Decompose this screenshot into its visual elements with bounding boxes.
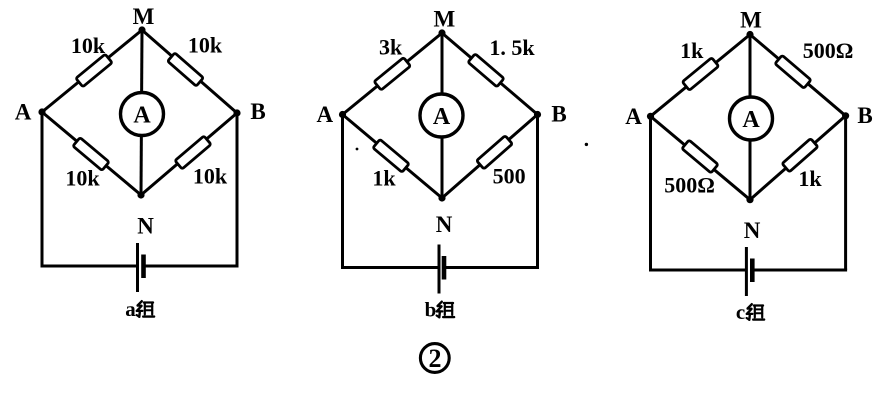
wire M2-B2 (arm): [442, 33, 538, 115]
caption c组 (group c): [736, 300, 764, 324]
svg-text:1k: 1k: [680, 38, 704, 63]
wire A1-N1 (arm): [42, 112, 141, 195]
wire A2-M2 (arm): [343, 33, 443, 115]
svg-text:B: B: [551, 101, 566, 126]
node A junction dot: [647, 113, 654, 120]
svg-text:N: N: [137, 214, 154, 239]
ammeter A2 (galvanometer): [420, 94, 463, 137]
resistor R4 10k (N-B arm): [175, 136, 211, 169]
resistor R3 10k (A-N arm): [73, 138, 109, 171]
wire M1-N1 (galvanometer branch): [141, 30, 142, 195]
resistor R10 500&#937; (M-B arm): [775, 55, 811, 88]
svg-text:500Ω: 500Ω: [664, 173, 715, 198]
node M junction dot: [746, 31, 753, 38]
svg-text:1k: 1k: [372, 166, 396, 191]
node B junction dot: [233, 109, 240, 116]
wire bottom-left to battery: [41, 265, 138, 268]
svg-text:N: N: [744, 218, 761, 243]
svg-text:B: B: [250, 99, 265, 124]
ammeter A1 (galvanometer): [121, 93, 164, 136]
svg-text:b: b: [425, 298, 437, 322]
wire N1-B1 (arm): [141, 113, 237, 195]
wire N2-B2 (arm): [442, 115, 538, 199]
wire N3-B3 (arm): [750, 116, 846, 200]
node M junction dot: [138, 26, 145, 33]
wire M1-B1 (arm): [142, 30, 237, 113]
wire A2 down (left battery lead): [341, 115, 344, 268]
svg-text:a: a: [125, 297, 136, 321]
svg-text:A: A: [742, 107, 760, 133]
resistor R1 10k (A-M arm): [76, 54, 112, 87]
svg-text:500: 500: [493, 164, 526, 189]
svg-text:A: A: [316, 102, 333, 127]
resistor R9 1k (A-M arm): [682, 58, 718, 91]
node A junction dot: [38, 108, 45, 115]
node B junction dot: [534, 111, 541, 118]
wire bottom-left to battery: [341, 266, 439, 269]
wire M3-B3 (arm): [750, 35, 846, 116]
wire A3-N3 (arm): [651, 116, 751, 199]
wire battery to bottom-right: [752, 269, 847, 272]
svg-text:10k: 10k: [65, 166, 100, 191]
caption b组 (group b): [425, 298, 454, 322]
battery E1 (cell: long and short plates): [138, 243, 144, 292]
resistor R5 3k (A-M arm): [374, 58, 410, 91]
wire B2 down (right battery lead): [536, 115, 539, 268]
wire A2-N2 (arm): [343, 115, 443, 199]
svg-text:500Ω: 500Ω: [803, 38, 854, 63]
resistor R7 1k (A-N arm): [373, 139, 409, 172]
caption a组 (group a): [125, 297, 154, 321]
svg-text:10k: 10k: [71, 33, 106, 58]
battery E2 (cell: long and short plates): [439, 245, 444, 294]
ammeter A3 (galvanometer): [730, 97, 773, 140]
wire battery to bottom-right: [444, 266, 539, 269]
svg-text:2: 2: [429, 344, 442, 373]
node N junction dot: [746, 196, 753, 203]
wire A3-M3 (arm): [651, 35, 751, 117]
wire B1 down (right battery lead): [236, 113, 239, 266]
node N junction dot: [438, 194, 445, 201]
svg-text:A: A: [433, 104, 451, 130]
wire A1-M1 (arm): [42, 30, 142, 112]
wire M2-N2 (galvanometer branch): [441, 33, 444, 198]
svg-text:3k: 3k: [379, 35, 403, 60]
svg-text:M: M: [133, 4, 155, 29]
wire M3-N3 (galvanometer branch): [749, 35, 752, 200]
resistor R11 500&#937; (A-N arm): [682, 140, 718, 173]
svg-text:10k: 10k: [188, 33, 223, 58]
battery E3 (cell: long and short plates): [746, 247, 752, 296]
svg-text:A: A: [133, 103, 151, 129]
node B junction dot: [842, 112, 849, 119]
wire B3 down (right battery lead): [844, 116, 847, 270]
wire A1 down (left battery lead): [41, 112, 44, 266]
resistor R12 1k (N-B arm): [782, 139, 818, 172]
node M junction dot: [438, 29, 445, 36]
svg-text:1. 5k: 1. 5k: [489, 35, 535, 60]
svg-text:10k: 10k: [193, 164, 228, 189]
resistor R8 500 (N-B arm): [477, 136, 513, 169]
resistor R2 10k (M-B arm): [168, 53, 204, 86]
wire A3 down (left battery lead): [649, 116, 652, 270]
node N junction dot: [137, 191, 144, 198]
wire bottom-left to battery: [649, 269, 746, 272]
node A junction dot: [339, 111, 346, 118]
figure number ② (circled 2): [420, 344, 449, 374]
svg-text:c: c: [736, 300, 745, 324]
svg-text:M: M: [740, 8, 762, 33]
wire battery to bottom-right: [144, 265, 239, 268]
resistor R6 1.5k (M-B arm): [468, 54, 504, 87]
svg-text:N: N: [436, 212, 453, 237]
svg-text:1k: 1k: [798, 166, 822, 191]
svg-text:A: A: [625, 104, 642, 129]
svg-text:B: B: [857, 103, 872, 128]
svg-text:A: A: [15, 100, 32, 125]
svg-text:M: M: [433, 7, 455, 32]
